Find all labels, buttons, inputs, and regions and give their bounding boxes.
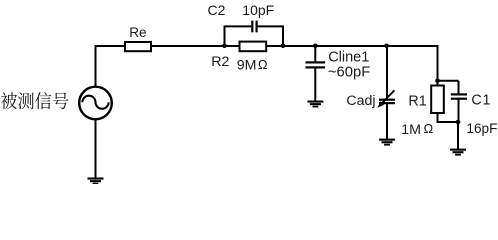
svg-text:R2: R2	[211, 54, 229, 70]
node: right junction of C2/R2 parallel pair	[281, 44, 286, 49]
svg-text:1M: 1M	[401, 122, 421, 138]
svg-text:Re: Re	[129, 25, 146, 40]
wire: C1 top lead	[458, 81, 460, 94]
svg-text:Ω: Ω	[424, 121, 434, 136]
wire: R1 bottom lead	[437, 113, 439, 123]
wire: C2 branch left riser	[225, 26, 252, 46]
node: R1/C1 bottom junction	[456, 120, 461, 125]
svg-text:Cline1: Cline1	[328, 50, 369, 66]
wire: main bus from Re to R2 network	[151, 45, 240, 47]
node: left junction of C2/R2 parallel pair	[222, 44, 227, 49]
svg-text:Cadj: Cadj	[346, 93, 375, 109]
ground (below source)	[88, 178, 104, 185]
ground (below Cadj)	[379, 139, 395, 146]
ac source VS (signal under test)	[79, 87, 112, 120]
wire: ground stem below R1/C1	[457, 122, 459, 150]
variable capacitor Cadj	[379, 99, 395, 105]
resistor R1	[431, 86, 444, 114]
svg-text:C1: C1	[471, 93, 491, 109]
svg-text:Ω: Ω	[258, 57, 268, 72]
wire: right corner drop from main bus	[437, 45, 439, 86]
wire: source top lead up to main bus	[95, 45, 97, 87]
arrow of variable capacitor Cadj	[377, 90, 394, 108]
wire: Cadj top lead	[386, 46, 388, 99]
node: R1/C1 top junction	[435, 79, 440, 84]
wire: Cline1 top lead	[314, 46, 316, 62]
node: Cline1 tap on main bus	[313, 44, 318, 49]
wire: C2 branch right riser	[258, 26, 284, 46]
resistor Re	[125, 42, 151, 51]
wire: top link to C1	[438, 80, 459, 82]
wire: Cadj bottom lead	[386, 104, 388, 140]
wire: C1 bottom lead	[458, 100, 460, 124]
wire: bottom rail joining R1 and C1	[437, 121, 459, 123]
wire: Cline1 bottom lead	[314, 68, 316, 102]
svg-text:R1: R1	[408, 94, 426, 110]
svg-text:10pF: 10pF	[242, 2, 274, 18]
capacitor Cline1	[306, 61, 326, 68]
ground (below R1/C1)	[450, 149, 466, 156]
node: Cadj tap on main bus	[384, 44, 389, 49]
svg-text:9M: 9M	[237, 58, 257, 74]
svg-text:~60pF: ~60pF	[328, 65, 370, 81]
svg-text:C2: C2	[208, 2, 226, 18]
wire: source bottom lead to ground	[95, 119, 97, 178]
label: input signal 被测信号	[1, 92, 69, 109]
capacitor C2	[251, 21, 258, 33]
resistor R2	[240, 42, 267, 52]
capacitor C1	[451, 93, 467, 99]
svg-text:16pF: 16pF	[466, 121, 497, 136]
wire: main bus from R2 network to right corner	[266, 45, 439, 47]
wire: main bus from source corner to resistor Re	[95, 45, 126, 47]
ground (below Cline1)	[307, 101, 323, 108]
